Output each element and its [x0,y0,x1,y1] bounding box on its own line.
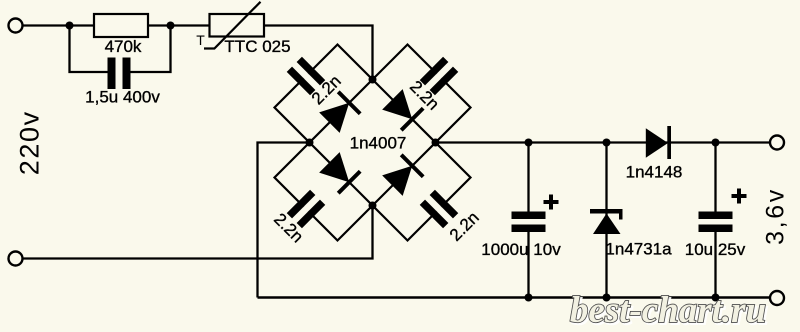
svg-text:1,5u 400v: 1,5u 400v [85,88,160,107]
capacitor C5 2.2n lower-right [420,190,459,229]
terminal output bottom [770,291,784,305]
node top rail at 1000u [525,139,533,147]
diode D5 1n4148 [646,128,668,157]
svg-text:10u 25v: 10u 25v [685,240,746,259]
wire bottom rail [258,296,778,299]
node bottom rail at 10u [712,294,720,302]
node top rail at 10u [712,139,720,147]
node bridge left [306,139,314,147]
wire top positive rail [436,141,778,143]
diode D1 bridge upper-left [318,90,361,133]
wire thermistor to bridge top [264,26,373,80]
svg-text:1n4007: 1n4007 [350,134,407,153]
svg-text:220v: 220v [15,110,45,175]
svg-text:best-chart.ru: best-chart.ru [570,290,766,331]
wire 10u branch [714,143,716,298]
svg-text:1000u 10v: 1000u 10v [481,240,561,259]
resistor R1 470k [94,14,148,37]
svg-text:T: T [196,32,205,48]
wire left branch down to C1 [70,26,108,73]
node bridge right [432,139,440,147]
diode D3 bridge lower-left [318,151,361,194]
node junction left of R1 [66,22,74,30]
wire right branch down to C1 [131,26,171,73]
node top rail at zener [603,139,611,147]
node junction right of R1 [167,22,175,30]
svg-text:470k: 470k [105,37,142,56]
polarity plus C6 [544,195,559,210]
svg-text:1n4731a: 1n4731a [605,240,672,259]
node bottom rail at zener [603,294,611,302]
capacitor C1 1,5u 400v plates [108,58,116,90]
zener VD1 1n4731a [590,209,623,214]
wire outer path upper-left [275,45,373,143]
polarity plus C7 [732,189,747,204]
thermistor RT1 TTC 025 body [210,14,265,37]
node bridge bottom [369,202,377,210]
wire zener branch [605,143,607,298]
svg-text:1n4148: 1n4148 [626,163,683,182]
diode D4 bridge lower-right [381,153,424,196]
thermistor diagonal stroke [204,2,261,49]
wire R1 to thermistor [148,24,210,26]
wire outer path lower-left [275,143,373,241]
wire top input [22,24,94,26]
capacitor C4 2.2n lower-left [287,190,326,229]
capacitor C7 10u plates [699,212,733,220]
wire 1000u branch [527,143,529,298]
diode D2 bridge upper-right [381,88,424,131]
wire outer path lower-right [373,143,471,241]
node bottom rail at 1000u [525,294,533,302]
node bridge top [369,76,377,84]
capacitor C2 2.2n upper-left [287,57,326,96]
capacitor C6 1000u plates [512,212,546,220]
svg-text:3,6v: 3,6v [762,187,790,245]
wire bridge diamond [310,80,436,206]
wire bridge left to ground rail [258,143,310,298]
svg-text:TTC 025: TTC 025 [224,37,290,56]
terminal input top [9,19,23,33]
terminal input bottom [9,252,23,266]
wire 220v bottom line [22,206,373,259]
terminal output top [770,136,784,150]
capacitor C3 2.2n upper-right [420,57,459,96]
wire outer path upper-right [373,45,471,143]
